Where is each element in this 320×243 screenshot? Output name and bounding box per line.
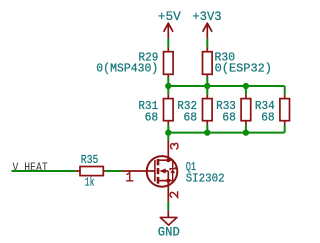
wire +3V3 to R30 [206, 39, 208, 48]
svg-text:V_HEAT: V_HEAT [13, 160, 48, 174]
gate bar [154, 160, 156, 182]
svg-text:+3V3: +3V3 [192, 9, 221, 24]
ground [158, 210, 180, 239]
junction top C3 [243, 83, 249, 89]
svg-text:SI2302: SI2302 [186, 173, 225, 186]
channel bar bottom [157, 177, 160, 184]
wire +5V to R29 [167, 39, 169, 48]
body circle [147, 156, 178, 187]
wire R30 to bus [206, 77, 208, 86]
svg-text:68: 68 [261, 112, 275, 125]
drain link [158, 141, 168, 161]
transistor Q1 [122, 141, 225, 202]
wire top bus [168, 85, 284, 87]
resistor R30 [203, 47, 273, 77]
svg-text:68: 68 [145, 112, 159, 125]
wire stub above R33 [245, 86, 247, 95]
junction bottom C1 [165, 129, 171, 135]
wire bottom bus [168, 132, 284, 134]
pin 1 number [127, 173, 133, 181]
resistor R34 [255, 95, 290, 125]
wire stub above R31 [167, 86, 169, 95]
wire R35 to Q1 gate [105, 170, 121, 172]
svg-text:1k: 1k [85, 176, 95, 189]
resistor R31 [138, 95, 173, 125]
resistor R29 [96, 47, 173, 77]
svg-text:R35: R35 [81, 154, 99, 167]
gate pin [122, 170, 155, 172]
pin 3 number [171, 143, 178, 149]
wire V_HEAT to R35 [12, 170, 77, 172]
svg-text:0(ESP32): 0(ESP32) [215, 63, 272, 76]
svg-text:0(MSP430): 0(MSP430) [96, 63, 158, 76]
svg-text:+5V: +5V [158, 9, 181, 24]
junction bottom C2 [204, 129, 210, 135]
wire R33 to bottom bus [245, 125, 247, 133]
body diode [168, 160, 172, 180]
resistor R35 [76, 154, 105, 189]
source link [158, 181, 168, 202]
junction dot drain [166, 158, 170, 162]
junction dot source [166, 179, 170, 183]
svg-text:68: 68 [184, 112, 198, 125]
junction top C2 [204, 83, 210, 89]
channel bar top [157, 159, 160, 165]
power +5V [158, 9, 181, 39]
junction top C1 [165, 83, 171, 89]
wire Q1 source to GND [167, 202, 169, 210]
resistor R32 [177, 95, 212, 125]
wire stub above R32 [206, 86, 208, 95]
channel bar middle [157, 168, 160, 174]
wire R34 to bottom bus [284, 125, 286, 133]
junction bottom C3 [243, 129, 249, 135]
wire top bus drop to R34 [284, 86, 286, 95]
wire R32 to bottom bus [206, 125, 208, 133]
svg-text:68: 68 [222, 112, 236, 125]
power +3V3 [192, 9, 221, 39]
wire R29 to bus [167, 77, 169, 86]
wire R31 to bottom bus [167, 125, 169, 133]
wire bus to Q1 drain [167, 133, 169, 141]
pin 2 number [170, 192, 177, 198]
substrate arrow [159, 169, 166, 174]
resistor R33 [216, 95, 251, 125]
svg-text:GND: GND [158, 225, 180, 240]
